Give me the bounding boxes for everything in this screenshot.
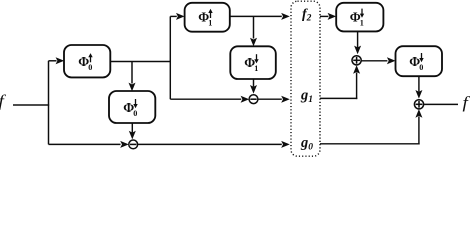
svg-text:0: 0 bbox=[419, 63, 423, 72]
svg-text:0: 0 bbox=[88, 63, 92, 72]
svg-text:1: 1 bbox=[360, 18, 364, 27]
svg-text:1: 1 bbox=[208, 19, 212, 28]
svg-text:0: 0 bbox=[133, 109, 137, 118]
svg-text:1: 1 bbox=[254, 64, 258, 73]
